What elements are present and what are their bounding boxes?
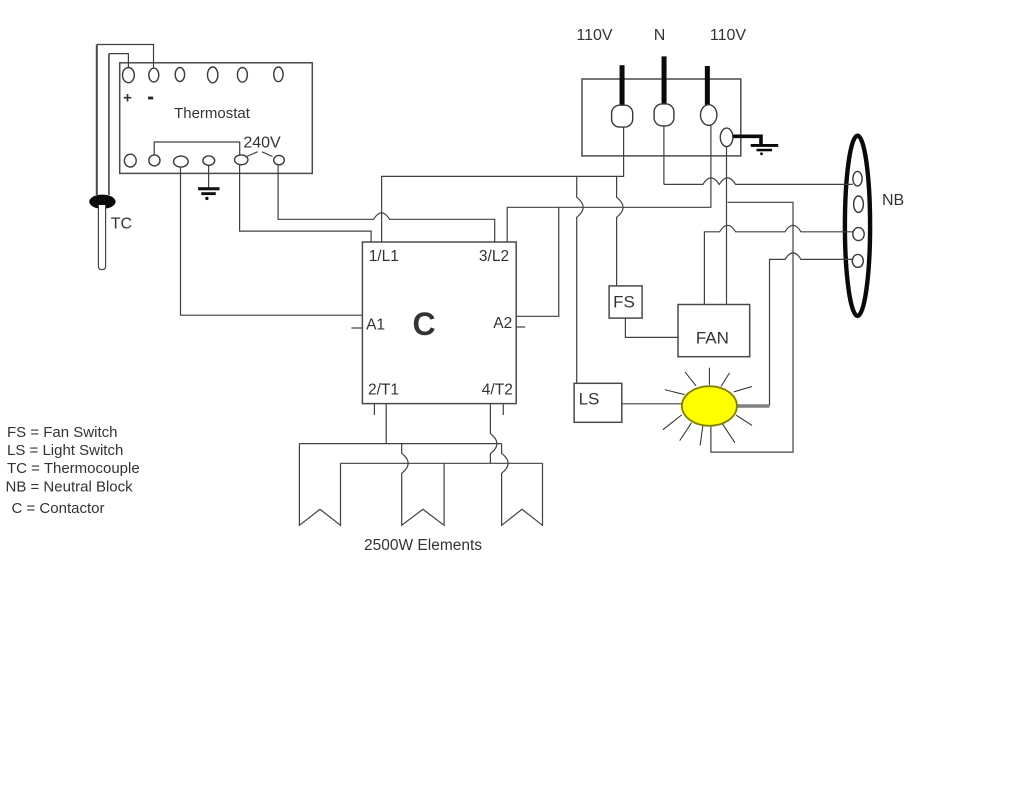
svg-text:A1: A1 xyxy=(366,316,385,333)
svg-text:FAN: FAN xyxy=(696,329,729,348)
svg-text:NB: NB xyxy=(882,192,904,209)
svg-text:+: + xyxy=(123,90,132,107)
svg-text:FS: FS xyxy=(613,293,635,312)
svg-text:FS = Fan Switch: FS = Fan Switch xyxy=(7,424,117,441)
svg-text:110V: 110V xyxy=(710,27,747,44)
svg-text:LS: LS xyxy=(579,389,600,408)
svg-text:TC = Thermocouple: TC = Thermocouple xyxy=(7,460,140,477)
svg-text:TC: TC xyxy=(111,215,132,232)
svg-text:110V: 110V xyxy=(576,27,613,44)
svg-text:1/L1: 1/L1 xyxy=(369,248,399,265)
svg-text:4/T2: 4/T2 xyxy=(482,382,513,399)
svg-text:C = Contactor: C = Contactor xyxy=(12,500,105,517)
svg-text:2/T1: 2/T1 xyxy=(368,382,399,399)
svg-text:NB = Neutral Block: NB = Neutral Block xyxy=(6,479,134,496)
svg-text:3/L2: 3/L2 xyxy=(479,248,509,265)
svg-text:LS = Light Switch: LS = Light Switch xyxy=(7,442,123,459)
svg-text:2500W Elements: 2500W Elements xyxy=(364,537,482,554)
svg-text:N: N xyxy=(654,27,666,44)
svg-text:Thermostat: Thermostat xyxy=(174,105,251,122)
svg-text:240V: 240V xyxy=(243,134,281,151)
svg-text:C: C xyxy=(412,306,435,342)
svg-text:A2: A2 xyxy=(493,315,512,332)
